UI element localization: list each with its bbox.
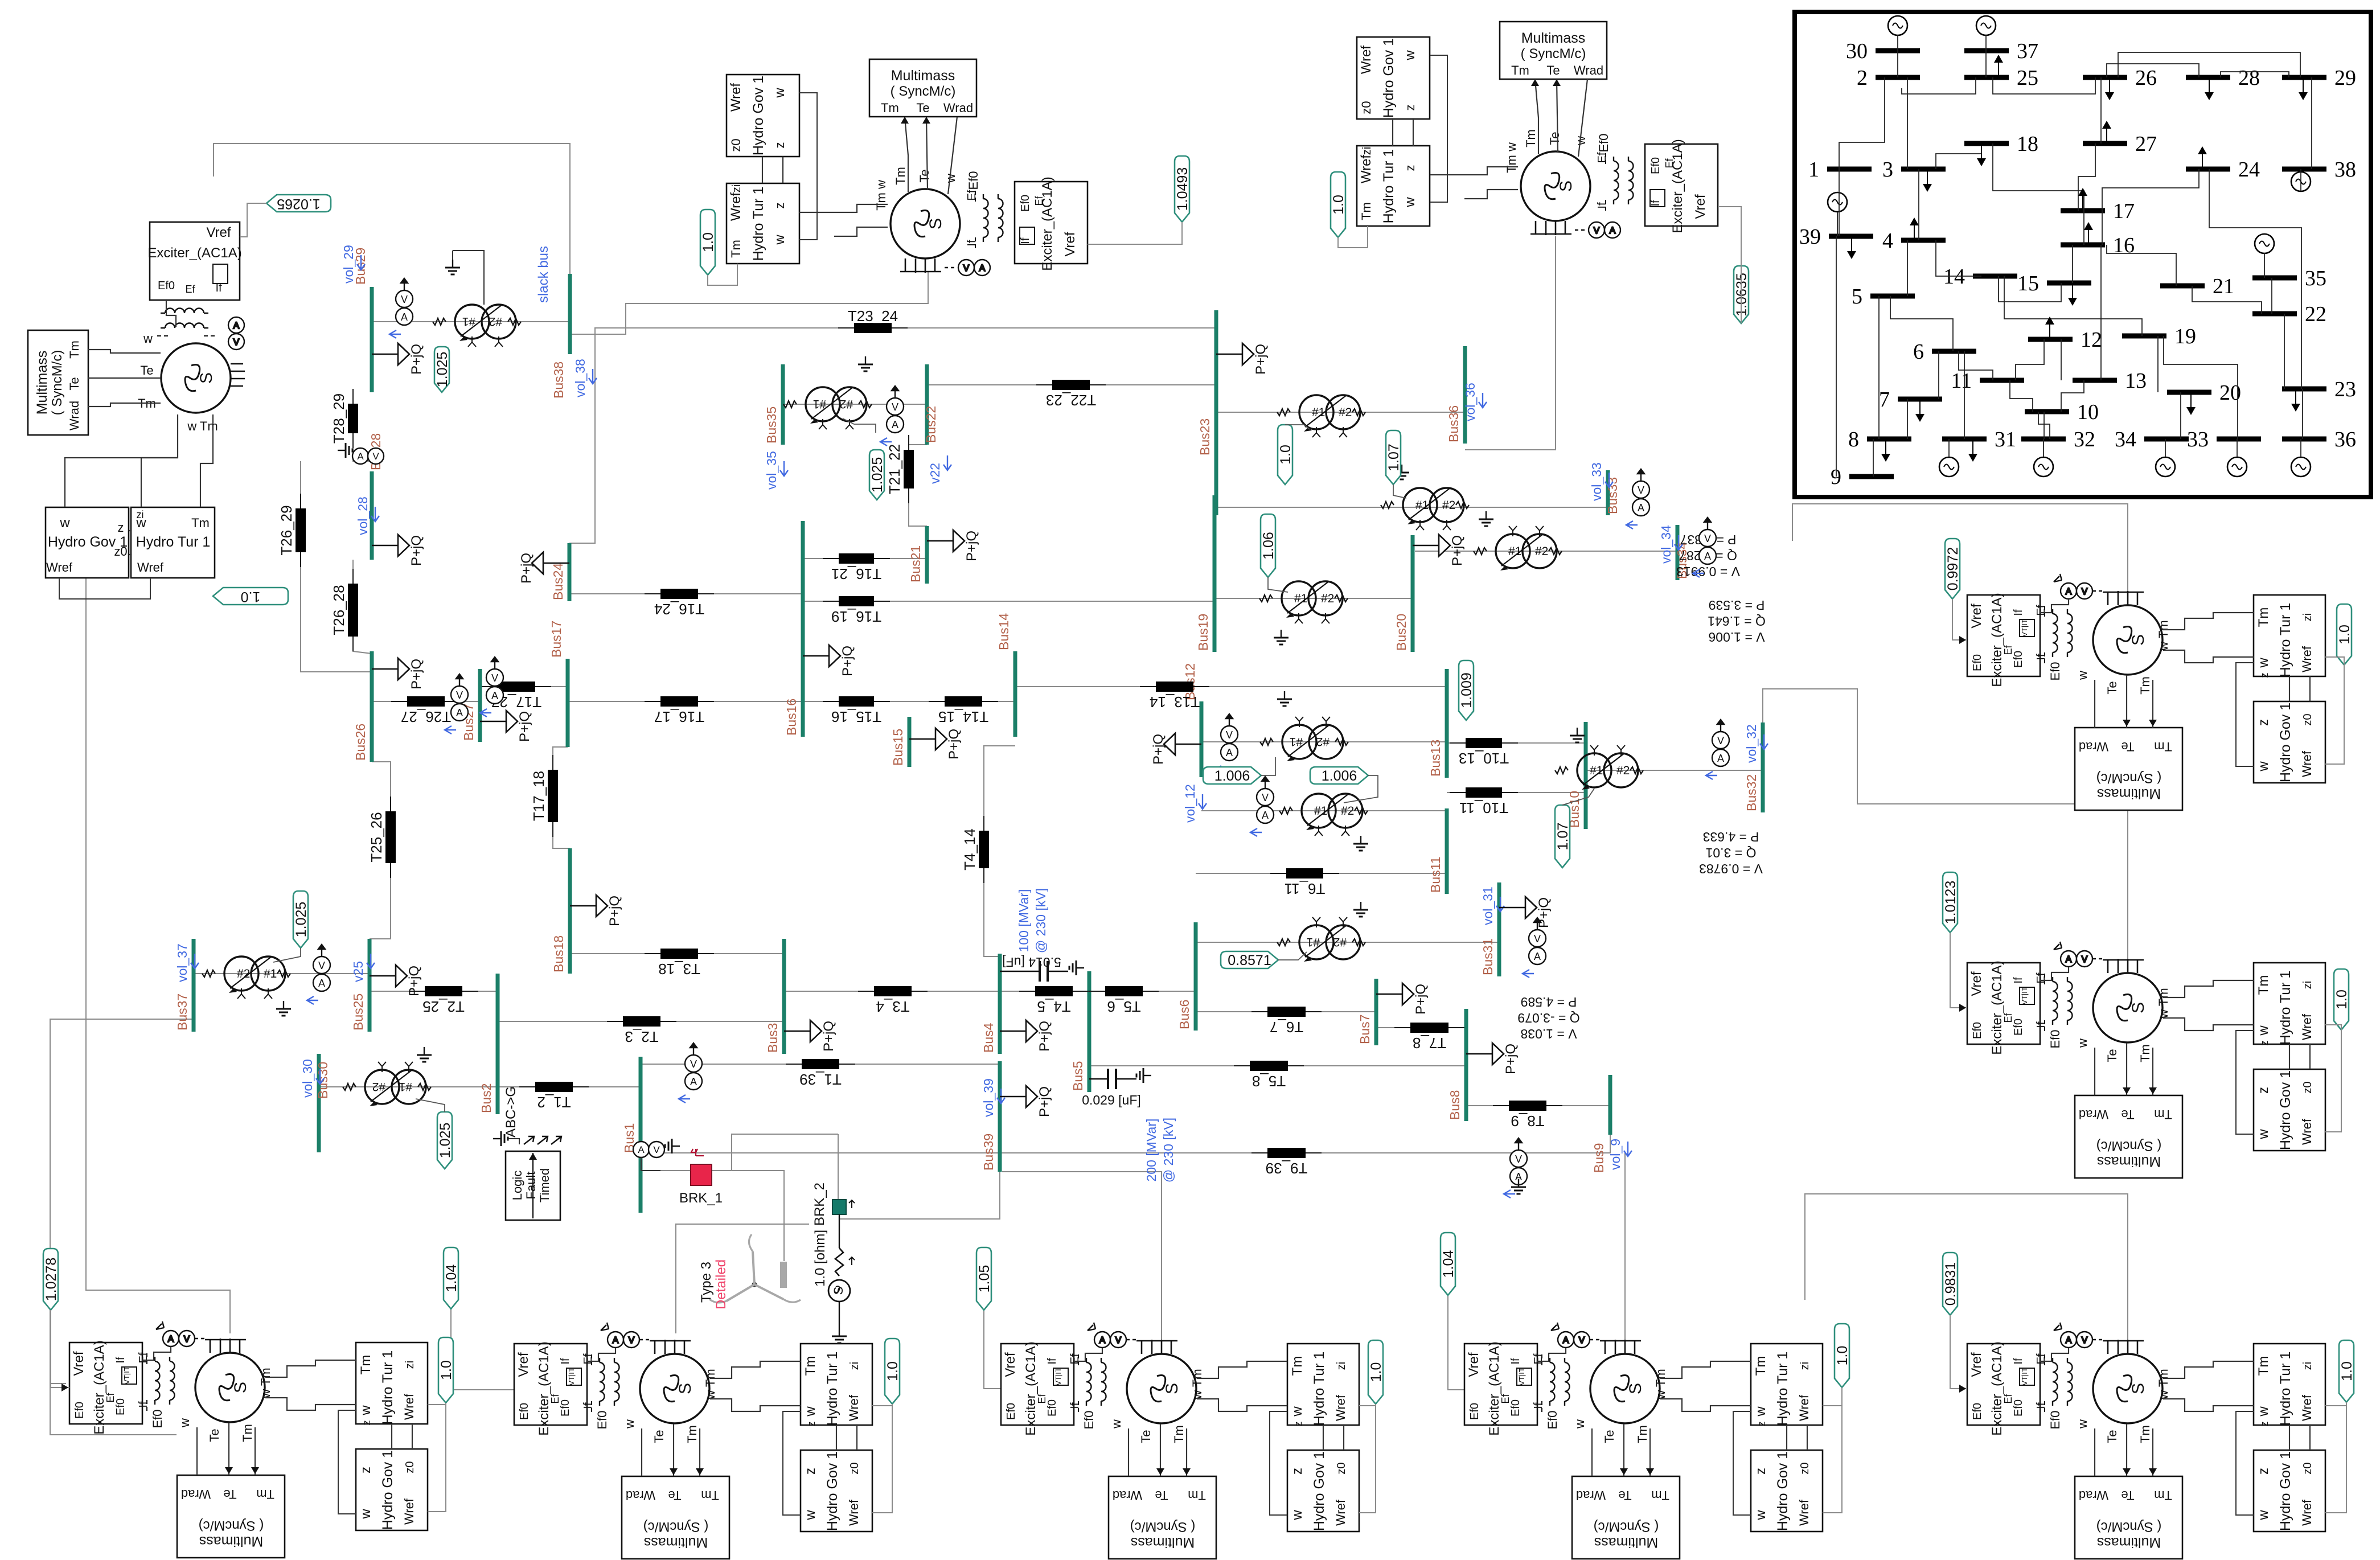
svg-text:Ef: Ef [1033, 196, 1045, 206]
transmission line T2_25 [409, 986, 478, 1015]
svg-text:vol_35: vol_35 [764, 451, 779, 490]
inset line [2118, 52, 2300, 77]
wire T13_14 link [1015, 686, 1447, 687]
transmission line T14_15 [929, 696, 998, 725]
svg-text:Ef0: Ef0 [2012, 651, 2025, 668]
svg-text:Multimass: Multimass [1594, 1534, 1659, 1550]
svg-text:zi: zi [731, 184, 743, 192]
wire BRK1 wind drop [732, 1171, 784, 1261]
value label v10 = 1.07 [1555, 805, 1571, 868]
inset load arrow [1923, 169, 1932, 192]
inset generator [1976, 16, 1996, 35]
wire GenT2 machine-tur2 [1464, 190, 1518, 199]
wire GenT2 w-loop [1430, 55, 1447, 202]
svg-text:Hydro Tur 1: Hydro Tur 1 [1775, 1352, 1791, 1426]
svg-text:Multimass: Multimass [891, 68, 955, 84]
ground T12-11 gnd [1353, 836, 1368, 851]
block GenB1.HydroGov [356, 1449, 428, 1530]
svg-text:Te: Te [668, 1488, 681, 1502]
ground T30-2 gnd [417, 1047, 432, 1062]
inset bus 7 [1879, 388, 1942, 412]
svg-text:Vref: Vref [1466, 1352, 1482, 1377]
bus Bus7 [1357, 979, 1376, 1045]
wire B4 terminal up [1624, 1153, 1626, 1348]
coil GenB1.EfIf [137, 1352, 175, 1413]
inset line [2284, 314, 2285, 389]
svg-text:zi: zi [1799, 1362, 1811, 1370]
svg-text:Tm: Tm [701, 1488, 719, 1502]
svg-text:Bus17: Bus17 [549, 621, 564, 658]
bus Bus11 [1428, 808, 1447, 894]
node vol_12 voltage probe [1183, 784, 1207, 823]
svg-text:A: A [2066, 1336, 2072, 1345]
svg-text:A: A [1638, 502, 1644, 514]
transformer T 12-11 [1279, 794, 1368, 836]
block GenB2.HydroGov [801, 1450, 872, 1532]
wire T14_15 link [909, 701, 1015, 702]
wire GenB5 w-loop [2236, 1411, 2254, 1515]
load P+jQ at Bus3 [784, 1020, 836, 1052]
svg-text:33: 33 [2187, 428, 2209, 451]
meter pair GenT1.AV [945, 260, 990, 276]
inset frame [1795, 12, 2371, 497]
inset line [1964, 351, 1965, 439]
svg-text:30: 30 [1846, 39, 1868, 63]
inset load arrow [1847, 236, 1856, 259]
block GenR1.HydroTur [2254, 595, 2325, 678]
svg-text:Te: Te [1548, 132, 1562, 145]
svg-text:Ef0: Ef0 [1971, 1022, 1984, 1039]
inset line [2061, 380, 2084, 412]
wire T22_23 link [927, 384, 1216, 385]
svg-text:Bus38: Bus38 [551, 362, 566, 399]
svg-text:Detailed: Detailed [713, 1259, 729, 1309]
svg-text:z0: z0 [2301, 1081, 2314, 1093]
wire T6_7 link [1196, 1011, 1376, 1012]
value label v19_20 = 1.06 [1261, 514, 1277, 577]
svg-text:24: 24 [2238, 158, 2260, 182]
svg-text:A: A [892, 419, 898, 430]
wire GenT2 te-up [1557, 79, 1558, 152]
svg-text:Multimass: Multimass [34, 351, 50, 415]
inset line [2311, 77, 2312, 169]
svg-text:Te: Te [2105, 1049, 2119, 1062]
bus Bus34 [1675, 525, 1689, 580]
transmission line T26_27 [391, 696, 461, 725]
measurement text Bus34 [1708, 598, 1766, 644]
svg-text:T2_3: T2_3 [625, 1028, 658, 1045]
wire GenB1 w-loop [338, 1410, 356, 1514]
svg-text:A: A [613, 1336, 619, 1345]
svg-text:Ef0: Ef0 [1545, 1410, 1560, 1429]
svg-text:Ef0: Ef0 [1019, 195, 1032, 212]
coil GenT2.EfIf [1596, 152, 1634, 212]
wire B4 vref wire [1448, 1295, 1464, 1390]
svg-text:Tm: Tm [1188, 1488, 1206, 1502]
inset generator [2156, 457, 2175, 477]
wire GenR2 vref-wire [1950, 933, 1967, 1008]
wire GenB3 w-loop [1270, 1411, 1287, 1515]
inset line [2083, 211, 2084, 245]
svg-text:T9_39: T9_39 [1266, 1160, 1308, 1177]
svg-text:Hydro Tur 1: Hydro Tur 1 [380, 1350, 396, 1425]
meter pair GenT2.AV [1575, 222, 1620, 238]
transmission line T5_6 [1089, 986, 1159, 1015]
svg-text:P+jQ: P+jQ [1536, 897, 1552, 928]
svg-text:P+jQ: P+jQ [1037, 1086, 1052, 1117]
svg-text:Bus37: Bus37 [175, 994, 190, 1031]
svg-text:Wrad: Wrad [2079, 740, 2108, 754]
exciter GenB1.Exciter_(AC1A) [69, 1340, 142, 1434]
svg-text:T17_18: T17_18 [530, 771, 547, 821]
svg-text:Te: Te [207, 1428, 221, 1442]
wire GenL gov-tur [129, 530, 131, 531]
svg-text:Multimass: Multimass [2097, 786, 2161, 802]
inset bus 34 [2115, 428, 2189, 451]
svg-text:Ef: Ef [185, 284, 195, 295]
value label GenR1.Vref = 0.9972 [1945, 539, 1961, 599]
inset load arrow [1968, 439, 1977, 462]
wire bus35-bus22 link [783, 404, 927, 405]
meter A/V Bus28 AV [352, 448, 384, 464]
ground source gnd [832, 1328, 847, 1343]
svg-text:Wref: Wref [728, 83, 744, 112]
svg-text:T26_28: T26_28 [330, 585, 347, 635]
wire GenR1 tm-arrow [2152, 680, 2153, 728]
svg-text:1.0: 1.0 [2334, 990, 2350, 1009]
svg-text:If: If [1069, 1402, 1081, 1409]
transformer T 23-36 [1277, 395, 1365, 437]
svg-text:S: S [926, 218, 945, 229]
svg-text:V: V [1115, 1336, 1122, 1345]
svg-text:Tm w: Tm w [1504, 142, 1519, 173]
svg-text:Hydro Tur 1: Hydro Tur 1 [136, 534, 211, 550]
svg-text:T10_11: T10_11 [1459, 799, 1508, 816]
value label GenR2.Vref = 1.0123 [1943, 872, 1959, 933]
svg-text:Bus14: Bus14 [996, 613, 1011, 650]
block GenL.Multimass [28, 330, 88, 435]
wire GenL w-gov [65, 458, 178, 507]
svg-text:#2: #2 [1333, 935, 1347, 949]
svg-text:V: V [2082, 955, 2088, 964]
bus Bus26 [353, 651, 372, 762]
svg-text:Hydro Tur 1: Hydro Tur 1 [2278, 603, 2293, 678]
svg-text:If: If [2035, 1402, 2047, 1409]
transmission line T28_29 [330, 389, 358, 448]
inset line [2043, 439, 2044, 457]
svg-text:P+jQ: P+jQ [840, 646, 855, 676]
svg-text:Hydro Gov 1: Hydro Gov 1 [2278, 1451, 2293, 1531]
svg-text:z: z [1292, 1422, 1304, 1427]
inset line [1907, 77, 1908, 169]
svg-text:V: V [1515, 1153, 1522, 1165]
block GenL.HydroTur [131, 507, 215, 578]
load P+jQ at Bus21 [927, 530, 979, 561]
wire GenB4 machine-Tm [1660, 1399, 1751, 1411]
svg-text:VT|IT: VT|IT [567, 1368, 576, 1386]
svg-text:V: V [1226, 729, 1233, 741]
machine GenB2.S (sync machine) [595, 1340, 717, 1443]
transmission line T10_13 [1450, 738, 1518, 767]
load P+jQ at Bus20 [1413, 535, 1465, 566]
value label GenB3.Vref = 1.05 [976, 1247, 992, 1310]
svg-text:32: 32 [2074, 428, 2095, 451]
wire T17_27 link [480, 686, 568, 687]
svg-text:vol_32: vol_32 [1744, 724, 1759, 763]
svg-text:Bus23: Bus23 [1197, 418, 1212, 455]
value label GenB4.Vref = 1.04 [1441, 1233, 1456, 1295]
wire GenB4 machine-w [1660, 1361, 1751, 1378]
svg-text:vol_9: vol_9 [1608, 1139, 1623, 1170]
svg-text:Bus13: Bus13 [1428, 740, 1443, 777]
wire GenB1 tur-gov-z [391, 1424, 392, 1449]
wire BRK2 top [838, 1134, 839, 1200]
inset line [2300, 439, 2301, 457]
inset line [1936, 143, 1981, 169]
transformer T 19-20 [1259, 581, 1348, 623]
value label GenB1.Vref = 1.0278 [43, 1249, 59, 1310]
svg-text:w: w [2075, 671, 2090, 680]
wire GenL wref-loop [59, 578, 150, 599]
svg-text:1.0265: 1.0265 [277, 196, 320, 212]
meter V/A T25-37 AV [307, 945, 330, 1004]
wire GenB5 gov-tur-z0 [2309, 1425, 2311, 1450]
svg-text:#2: #2 [1341, 804, 1354, 818]
svg-text:( SyncM/c): ( SyncM/c) [1130, 1519, 1196, 1534]
wire brk1 meters drop [641, 1157, 660, 1171]
node vol_34 voltage probe [1659, 525, 1683, 564]
wire GenB1 w-arrow [196, 1427, 198, 1475]
svg-text:( SyncM/c): ( SyncM/c) [891, 84, 956, 99]
svg-text:VT|IT: VT|IT [1054, 1368, 1062, 1386]
svg-text:zi: zi [1361, 147, 1373, 155]
svg-text:Te: Te [652, 1430, 666, 1443]
svg-text:If: If [2012, 609, 2025, 616]
svg-text:Tm: Tm [240, 1424, 255, 1442]
svg-text:1.025: 1.025 [434, 352, 450, 388]
node vol_33 voltage probe [1589, 462, 1613, 501]
svg-text:vol_38: vol_38 [573, 359, 588, 397]
value label v25_37 = 1.025 [293, 891, 309, 948]
svg-text:Tm: Tm [729, 240, 743, 258]
wire bus10-bus32 xfmr link [1586, 770, 1763, 771]
wire fault wire [508, 1139, 519, 1144]
svg-text:If: If [2012, 977, 2025, 984]
svg-text:Ef0: Ef0 [150, 1409, 165, 1428]
svg-text:Wrad: Wrad [67, 401, 81, 430]
machine GenB5.S (sync machine) [2048, 1340, 2170, 1443]
meter pair GenB3.AV [1088, 1323, 1139, 1348]
svg-text:#2: #2 [1339, 406, 1352, 419]
svg-text:Wref: Wref [46, 560, 73, 574]
svg-text:A: A [1563, 1336, 1569, 1345]
svg-text:1.0123: 1.0123 [1943, 881, 1959, 924]
svg-text:V: V [1594, 226, 1600, 236]
source 1.0 ohm branch [813, 1214, 855, 1328]
wire GenT1 machine-tur2 [834, 227, 888, 236]
svg-text:1.04: 1.04 [444, 1265, 459, 1292]
exciter GenT2.Exciter_(AC1A) [1645, 139, 1718, 233]
svg-text:Bus18: Bus18 [551, 935, 566, 972]
wire GenB5 w-arrow [2094, 1428, 2095, 1476]
wire BRK1 link [660, 1134, 838, 1171]
inset bus 12 [2028, 328, 2102, 352]
transmission line T6_11 [1270, 868, 1339, 897]
svg-text:Te: Te [223, 1487, 236, 1501]
svg-text:Ef0: Ef0 [2048, 662, 2062, 680]
inset line [1936, 240, 1981, 276]
wire GenL tm-down [200, 414, 213, 507]
svg-text:V: V [1579, 1336, 1585, 1345]
wire GenT2 tm-up [1535, 79, 1538, 154]
inset line [1993, 143, 2084, 211]
svg-text:35: 35 [2305, 266, 2326, 290]
wire T16_19 link [803, 601, 1213, 602]
wire GenT1 w-up [948, 117, 957, 194]
svg-text:38: 38 [2334, 158, 2356, 182]
wire GenL tur-gov [129, 554, 131, 555]
wire GenB1 tm-arrow [255, 1427, 256, 1475]
svg-text:12: 12 [2081, 328, 2102, 352]
transformer T 6-31 [1277, 917, 1365, 962]
svg-text:P+jQ: P+jQ [607, 896, 622, 926]
svg-text:#2: #2 [1321, 592, 1334, 605]
svg-text:( SyncM/c): ( SyncM/c) [2096, 1138, 2162, 1153]
svg-text:Vref: Vref [1062, 232, 1078, 256]
svg-text:w Tm: w Tm [2156, 988, 2170, 1019]
svg-text:Bus6: Bus6 [1177, 1000, 1192, 1029]
svg-text:P+jQ: P+jQ [519, 553, 534, 584]
svg-text:If: If [582, 1402, 594, 1409]
value label v13 = 1.009 [1459, 660, 1475, 720]
node v22 voltage probe [928, 455, 951, 484]
svg-text:Bus22: Bus22 [924, 406, 938, 443]
svg-text:Ef: Ef [2003, 1394, 2014, 1404]
svg-text:Wref: Wref [1797, 1394, 1811, 1421]
load P+jQ at Bus12 [1151, 733, 1201, 765]
bus Bus29 [353, 248, 372, 392]
meter V/A Bus32 AV [1706, 720, 1729, 779]
svg-text:Ef: Ef [1500, 1394, 1511, 1404]
inset load arrow [1994, 55, 2003, 77]
inset line [2061, 339, 2062, 380]
wire pill t2336 [1285, 425, 1310, 429]
bus Bus2 [479, 974, 498, 1114]
svg-text:T13_14: T13_14 [1150, 693, 1200, 711]
transmission line T23_24 [838, 307, 908, 333]
wire GenR2 wref-wire [2325, 1025, 2341, 1030]
wire gen T1 to slack bus [570, 272, 928, 334]
svg-text:Wref: Wref [2300, 1394, 2314, 1421]
coil GenR1.EfIf [2035, 605, 2073, 665]
svg-text:A: A [2066, 955, 2072, 964]
ground T19-20 gnd [1274, 630, 1289, 644]
wire GenB5 wref-wire [2325, 1402, 2346, 1406]
svg-text:Ef: Ef [1664, 158, 1675, 169]
svg-text:P+jQ: P+jQ [407, 966, 422, 996]
svg-text:Ef0: Ef0 [518, 1403, 531, 1420]
svg-text:P = 4.589: P = 4.589 [1521, 995, 1577, 1009]
wire GenT2 gov-tur [1392, 119, 1393, 146]
inset bus 16 [2061, 233, 2135, 257]
label Type 3 / Detailed [699, 1259, 729, 1309]
svg-text:Ef: Ef [105, 1393, 116, 1403]
value label v30_2 = 1.025 [437, 1112, 453, 1169]
transmission line T15_16 [823, 696, 890, 725]
svg-text:w Tm: w Tm [703, 1369, 717, 1399]
wind turbine Type 3 [709, 1234, 801, 1303]
wire GenB2 machine-Tm [710, 1399, 801, 1411]
svg-text:Te: Te [1155, 1488, 1168, 1502]
bus Bus36 [1446, 346, 1465, 444]
wire bus20-bus34 xfmr link [1415, 551, 1677, 552]
meter pair GenR2.AV [2054, 942, 2105, 967]
inset line [1878, 296, 1880, 439]
svg-text:S: S [2129, 1002, 2148, 1013]
bus Bus39 [981, 1061, 1000, 1172]
transmission line T4_14 [961, 816, 989, 883]
svg-text:A: A [1226, 747, 1233, 758]
svg-text:Vref: Vref [516, 1352, 531, 1377]
svg-text:z: z [2256, 1087, 2271, 1094]
block GenB3.HydroGov [1287, 1450, 1359, 1532]
svg-text:V: V [401, 294, 408, 305]
wire GenT1 w-loop [799, 93, 817, 240]
svg-text:1.0493: 1.0493 [1175, 167, 1191, 211]
svg-text:7: 7 [1879, 388, 1890, 412]
bus Bus9 [1591, 1075, 1610, 1173]
load P+jQ at Bus23 [1216, 343, 1269, 375]
svg-text:A: A [233, 321, 240, 331]
wire bus12-bus11 xfmr link [1201, 810, 1447, 811]
svg-text:V: V [233, 338, 240, 347]
wire pill t302 [416, 1099, 445, 1112]
inset bus 35 [2252, 266, 2326, 290]
svg-text:T8_9: T8_9 [1511, 1112, 1544, 1130]
svg-text:18: 18 [2017, 132, 2038, 156]
svg-text:z: z [2256, 1468, 2271, 1475]
svg-text:z: z [1403, 105, 1417, 111]
bus Bus38 [551, 274, 570, 399]
svg-text:S: S [1626, 1383, 1645, 1394]
wire GenB3 machine-Tm [1197, 1399, 1287, 1411]
svg-text:1.025: 1.025 [437, 1123, 453, 1159]
svg-text:Exciter_(AC1A): Exciter_(AC1A) [536, 1341, 552, 1435]
inset load arrow [2186, 392, 2196, 415]
wire bus33 xfmr link [1214, 507, 1608, 508]
svg-text:Wrad: Wrad [181, 1487, 211, 1501]
svg-text:V: V [372, 451, 379, 462]
wire GenR2 w-loop [2236, 1031, 2254, 1134]
svg-text:V = 0.9783: V = 0.9783 [1699, 861, 1763, 876]
svg-text:Q = 3.01: Q = 3.01 [1706, 845, 1757, 860]
meter V/A Bus31 AV [1523, 918, 1546, 978]
bus Bus8 [1447, 1009, 1466, 1121]
svg-text:z0: z0 [1359, 101, 1373, 114]
block GenL.HydroGov [46, 507, 129, 578]
svg-text:Ef0: Ef0 [966, 171, 980, 190]
svg-text:zi: zi [137, 509, 144, 520]
wire GenR1 tur-gov-z [2289, 676, 2290, 701]
svg-text:Wref: Wref [2300, 1499, 2314, 1526]
svg-text:P+jQ: P+jQ [1151, 734, 1166, 765]
svg-text:Wrad: Wrad [2079, 1107, 2108, 1122]
wire GenT1 wref [708, 264, 737, 285]
svg-text:vol_30: vol_30 [300, 1059, 315, 1098]
bus Bus31 [1480, 882, 1499, 976]
svg-text:Exciter_(AC1A): Exciter_(AC1A) [1989, 960, 2005, 1054]
svg-text:Hydro Gov 1: Hydro Gov 1 [1775, 1451, 1791, 1531]
